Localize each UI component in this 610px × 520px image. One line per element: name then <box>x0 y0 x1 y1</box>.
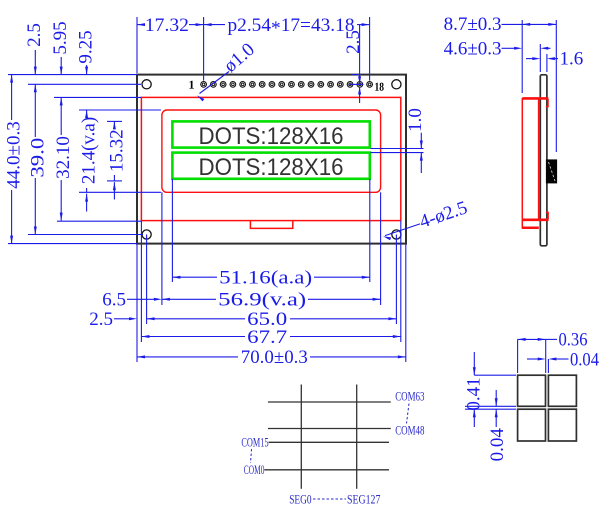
dimension 51.16(a.a) <box>172 268 369 289</box>
svg-text:51.16(a.a): 51.16(a.a) <box>219 268 312 289</box>
svg-text:21.4(v.a): 21.4(v.a) <box>79 117 100 184</box>
svg-text:DOTS:128X16: DOTS:128X16 <box>199 154 344 181</box>
dashed connector SEG0-SEG127 <box>313 498 346 500</box>
PCB board outline front view <box>137 75 406 244</box>
svg-text:8.7±0.3: 8.7±0.3 <box>444 14 502 35</box>
svg-text:4.6±0.3: 4.6±0.3 <box>444 39 502 60</box>
extension line green gap top <box>371 148 424 150</box>
dot square top-left <box>518 375 546 406</box>
side view bezel lower flange <box>522 226 539 229</box>
extension line hole center bottom <box>28 234 143 236</box>
label COM0 <box>244 462 265 477</box>
dimension 70.0±0.3 <box>137 347 406 368</box>
svg-text:70.0±0.3: 70.0±0.3 <box>241 347 308 368</box>
svg-text:COM0: COM0 <box>244 462 265 477</box>
extension line aa right bottom <box>369 179 371 282</box>
dimension 0.41 <box>464 352 485 427</box>
svg-text:0.04: 0.04 <box>487 428 508 462</box>
extension line bezel bottom <box>57 220 141 222</box>
extension line hole center top <box>28 83 141 85</box>
svg-text:0.04: 0.04 <box>570 349 599 370</box>
svg-text:6.5: 6.5 <box>102 289 126 310</box>
extension line PCB left bottom <box>136 244 138 362</box>
extension line PCB back face <box>546 54 548 72</box>
svg-text:32.10: 32.10 <box>53 136 74 179</box>
svg-text:44.0±0.3: 44.0±0.3 <box>4 121 25 188</box>
svg-text:5.95: 5.95 <box>50 21 71 54</box>
dimension 32.10 <box>53 97 74 220</box>
leader diameter 1.0 pin hole <box>197 39 259 101</box>
dimension 6.5 leader <box>102 289 162 310</box>
svg-text:2.5: 2.5 <box>343 30 364 54</box>
dimension 0.04 horizontal gap <box>527 349 599 370</box>
extension stub dot row gap bottom <box>465 408 516 410</box>
svg-text:17.32: 17.32 <box>145 15 189 36</box>
pin 18 label <box>374 80 384 94</box>
extension line viewing area bottom <box>79 191 161 193</box>
extension line bezel top <box>54 96 141 98</box>
label COM48 <box>395 423 424 438</box>
dimension 15.32 <box>106 121 127 199</box>
dimension 8.7±0.3 <box>444 14 557 35</box>
pin header row 18 pins <box>201 82 373 88</box>
extension stub dot top <box>474 374 516 376</box>
label SEG0 <box>289 491 311 506</box>
dimension 21.4(v.a) <box>79 110 100 212</box>
active area line 1 green box <box>172 121 369 147</box>
extension line dot left <box>517 339 519 373</box>
extension line dot gap left <box>545 339 547 373</box>
mounting hole top-right <box>392 80 401 89</box>
mounting hole top-left <box>142 80 151 89</box>
dimension 1.6 <box>526 48 583 69</box>
side view PCB <box>540 75 547 246</box>
svg-text:COM15: COM15 <box>241 435 268 450</box>
extension line bezel front <box>521 20 523 93</box>
extension line viewing area top <box>79 109 161 111</box>
dimension 39.0 <box>27 84 48 234</box>
matrix horizontal line COM63 <box>268 401 391 403</box>
svg-text:1.0: 1.0 <box>405 108 426 132</box>
matrix horizontal line COM15 <box>269 441 389 443</box>
svg-text:SEG0: SEG0 <box>289 491 311 506</box>
FPC notch red <box>250 221 292 229</box>
dimension 5.95 top left <box>50 21 71 74</box>
extension line pin18 center <box>369 17 371 81</box>
extension line va left bottom <box>161 192 163 305</box>
matrix horizontal line COM48 <box>268 428 391 430</box>
DOTS:128X16 text line 1 <box>199 123 344 150</box>
svg-text:DOTS:128X16: DOTS:128X16 <box>199 123 344 150</box>
svg-text:ø1.0: ø1.0 <box>220 39 259 77</box>
svg-text:9.25: 9.25 <box>75 30 96 63</box>
label COM63 <box>395 388 424 403</box>
extension line dot gap right <box>547 359 549 373</box>
mounting hole bottom-right <box>392 230 401 239</box>
dimension 4.6±0.3 <box>444 39 551 60</box>
viewing area red rounded rect <box>162 110 381 192</box>
leader 4-diameter 2.5 mounting holes <box>383 197 470 240</box>
dimension 2.5 top left <box>24 23 45 74</box>
svg-text:67.7: 67.7 <box>247 327 287 348</box>
extension line PCB top edge left <box>8 74 137 76</box>
dimension 2.5 leader bottom <box>89 309 137 330</box>
svg-text:39.0: 39.0 <box>27 138 48 178</box>
svg-text:SEG127: SEG127 <box>347 491 381 506</box>
side view bezel top bar <box>522 98 548 106</box>
dimension 67.7 <box>141 327 400 348</box>
svg-text:1.6: 1.6 <box>560 48 584 69</box>
side view bezel inner edge <box>538 99 540 219</box>
dot square top-right <box>548 375 576 406</box>
active area line 2 green box <box>172 153 369 179</box>
label COM15 <box>241 435 268 450</box>
dimension 44.0±0.3 <box>4 75 25 244</box>
extension line va right bottom <box>380 192 382 305</box>
dimension 17.32 <box>137 15 204 36</box>
extension line PCB left top <box>136 17 138 73</box>
svg-text:COM48: COM48 <box>395 423 424 438</box>
extension stub dot row gap top <box>465 405 516 407</box>
extension line bezel right bottom <box>400 221 402 342</box>
display bezel outline red <box>141 97 400 220</box>
extension stub green bottom <box>107 180 122 182</box>
dimension 9.25 top left <box>75 30 96 74</box>
side view bezel bottom bar <box>522 212 548 219</box>
dashed connector COM63-COM48 <box>407 404 410 424</box>
dashed connector COM15-COM0 <box>251 449 252 463</box>
extension line aa left bottom <box>171 179 173 282</box>
dimension 0.36 <box>518 330 588 351</box>
svg-text:2.5: 2.5 <box>89 309 113 330</box>
extension line PCB right bottom <box>405 244 407 362</box>
svg-text:1: 1 <box>188 78 194 92</box>
svg-text:2.5: 2.5 <box>24 23 45 47</box>
extension line PCB front face <box>539 44 541 72</box>
matrix horizontal line COM0 <box>264 469 389 471</box>
extension line pin1 center <box>203 17 205 81</box>
dot square bottom-left <box>518 409 546 441</box>
svg-text:COM63: COM63 <box>395 388 424 403</box>
dimension p2.54*17=43.18 <box>204 15 370 39</box>
extension line bezel left bottom <box>140 221 142 342</box>
extension stub green top <box>107 120 122 122</box>
side view black component <box>546 159 557 183</box>
extension line hole right bottom <box>395 235 397 325</box>
dimension 65.0 <box>147 309 397 330</box>
svg-text:4-ø2.5: 4-ø2.5 <box>417 197 470 232</box>
extension line PCB bottom edge left <box>8 243 137 245</box>
svg-text:56.9(v.a): 56.9(v.a) <box>218 290 306 311</box>
matrix vertical line 1 <box>300 385 302 489</box>
dimension 56.9(v.a) <box>162 290 381 311</box>
extension line component back <box>555 20 557 152</box>
dimension 2.5 pin offset <box>343 25 364 103</box>
mounting hole bottom-left <box>142 230 151 239</box>
svg-text:0.41: 0.41 <box>464 377 485 410</box>
DOTS:128X16 text line 2 <box>199 154 344 181</box>
svg-text:p2.54*17=43.18: p2.54*17=43.18 <box>228 15 355 39</box>
svg-text:0.36: 0.36 <box>559 330 588 351</box>
dimension 0.04 vertical gap <box>487 390 508 461</box>
label SEG127 <box>347 491 381 506</box>
dimension 1.0 gap <box>405 108 426 173</box>
side view bezel left edge <box>521 98 523 228</box>
pin 1 label <box>188 78 194 92</box>
svg-text:18: 18 <box>374 80 384 94</box>
dot square bottom-right <box>548 409 576 441</box>
svg-text:15.32: 15.32 <box>106 129 127 172</box>
extension line hole left bottom <box>146 235 148 325</box>
matrix vertical line 2 <box>356 385 358 489</box>
extension line green gap bottom <box>371 152 424 154</box>
